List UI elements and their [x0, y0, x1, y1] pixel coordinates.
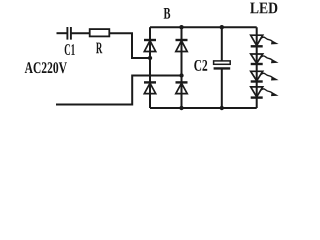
wire bridge right leg: [181, 27, 183, 108]
capacitor C1: [67, 27, 71, 40]
diode D1 (bridge upper-left): [144, 40, 156, 52]
capacitor C2 (polarized, hollow top plate): [214, 61, 231, 69]
diode D2 (bridge lower-left): [144, 82, 156, 93]
LED2 emission arrow: [261, 56, 279, 63]
junction dots: [148, 25, 224, 110]
LED4: [251, 87, 263, 98]
wire top rail (B+): [150, 26, 257, 28]
node AC input 1 / left bridge leg: [148, 56, 152, 60]
label C2: [194, 60, 207, 71]
LED2: [251, 54, 263, 64]
label AC220V: [25, 62, 67, 73]
LED1: [251, 35, 263, 46]
label LED: [250, 3, 277, 14]
diode D3 (bridge upper-right): [176, 40, 188, 52]
diode D4 (bridge lower-right): [176, 82, 188, 93]
wire top AC terminal to C1: [57, 32, 68, 34]
LED4 emission arrow: [261, 89, 279, 96]
label C1: [65, 44, 75, 55]
wire LED string leg: [256, 27, 258, 108]
wire bottom AC terminal to bridge input node 2: [56, 76, 181, 105]
node AC input 2 / right bridge leg: [179, 73, 183, 77]
wire R to bridge input node (elbow): [109, 33, 149, 58]
node top rail / right bridge leg: [179, 25, 183, 29]
label B: [164, 8, 171, 19]
LED1 emission arrow: [261, 37, 279, 44]
LED3: [251, 71, 263, 81]
node top rail / C2: [220, 25, 224, 29]
wire C2 leg: [221, 27, 223, 108]
node bottom rail / right bridge leg: [179, 106, 183, 110]
resistor R: [90, 29, 110, 36]
node bottom rail / C2: [220, 106, 224, 110]
label R: [96, 43, 102, 54]
wire bottom rail: [150, 107, 257, 109]
wire C1 to R: [72, 32, 91, 34]
LED3 emission arrow: [261, 73, 279, 80]
wire bridge left leg: [149, 27, 151, 108]
